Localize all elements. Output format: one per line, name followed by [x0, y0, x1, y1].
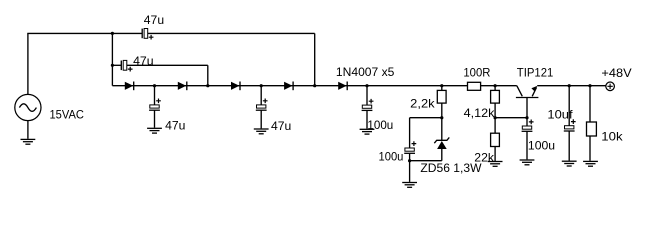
capacitor C6 100u (zener side) [404, 118, 416, 161]
node dot zener bottom [408, 159, 411, 162]
svg-text:47u: 47u [133, 54, 154, 68]
capacitor C8 10uf [564, 86, 576, 161]
svg-text:100u: 100u [379, 149, 404, 163]
node dot after D3 [260, 84, 263, 87]
shunt branch 1: wire down [154, 86, 156, 105]
diode D5 [338, 82, 347, 91]
wire rail after 100R [481, 85, 517, 87]
ground 22k [488, 162, 503, 167]
capacitor C3 47u (shunt 1) [149, 98, 161, 110]
transistor Q1 TIP121 [516, 86, 539, 118]
svg-text:2,2k: 2,2k [410, 97, 435, 111]
diode D2 [178, 82, 187, 91]
svg-text:47u: 47u [271, 119, 291, 133]
zener diode ZD1 ZD56 [434, 118, 449, 161]
wire source bottom lead [27, 121, 29, 139]
node dot middle-rail [206, 84, 209, 87]
wire middle right [127, 64, 208, 66]
wire middle down [207, 65, 209, 85]
output terminal +48V [606, 82, 615, 91]
wire top rail left [27, 32, 142, 34]
ground zener branch [402, 183, 417, 188]
wire top down [314, 33, 316, 85]
svg-text:100u: 100u [528, 139, 555, 153]
resistor R3 4.12k [491, 86, 500, 118]
wire top rail right [148, 32, 315, 34]
ground C7 [520, 160, 535, 165]
capacitor C2 47u (middle series) [121, 60, 132, 71]
diode D3 [231, 82, 240, 91]
diode D4 [284, 82, 293, 91]
svg-text:10k: 10k [601, 130, 623, 144]
shunt branch 2: wire down [260, 86, 262, 105]
capacitor C4 47u (shunt 2) [256, 98, 268, 110]
node dot divider [494, 116, 497, 119]
svg-text:ZD56 1,3W: ZD56 1,3W [420, 161, 482, 175]
wire middle stub [112, 64, 121, 66]
svg-text:100R: 100R [463, 65, 490, 79]
wire C5 to ground [366, 110, 368, 128]
svg-text:1N4007 x5: 1N4007 x5 [336, 65, 395, 79]
svg-text:47u: 47u [144, 13, 164, 27]
wire divider to base [495, 117, 527, 119]
resistor R5 10k [587, 86, 597, 161]
wire vertical AC column [111, 33, 113, 85]
ground shunt1 [147, 128, 162, 133]
wire shunt2 to ground [260, 110, 262, 128]
node dot base [525, 116, 528, 119]
capacitor C7 100u (base) [522, 118, 534, 160]
branch 100u after D5: wire down [366, 86, 368, 105]
node dot 10uf tap [568, 84, 571, 87]
node dot middle [111, 64, 114, 67]
wire zener ground stub [409, 161, 411, 182]
node dot after D5 [365, 84, 368, 87]
capacitor C5 100u [362, 99, 374, 111]
node dot 10k tap [588, 84, 591, 87]
ground C5 [360, 129, 375, 134]
AC source V1 15VAC [15, 94, 41, 120]
svg-text:100u: 100u [367, 118, 393, 132]
diode D1 [125, 82, 134, 91]
svg-text:TIP121: TIP121 [517, 66, 554, 80]
svg-text:15VAC: 15VAC [50, 108, 85, 122]
wire zener bottom left [410, 160, 442, 162]
ground C8 [562, 161, 577, 166]
node dot 4.12k tap [494, 84, 497, 87]
node dot zener top [440, 116, 443, 119]
ground 10k [583, 161, 598, 166]
svg-text:+48V: +48V [601, 66, 631, 80]
resistor R2 2.2k [437, 86, 446, 118]
wire zener node left [410, 117, 442, 119]
wire shunt1 to ground [154, 110, 156, 128]
svg-text:4,12k: 4,12k [464, 106, 496, 120]
ground shunt2 [254, 129, 269, 134]
capacitor C1 47u (top series) [142, 29, 153, 40]
node dot 2.2k tap [440, 84, 443, 87]
resistor R1 100R [468, 82, 481, 90]
svg-text:22k: 22k [474, 150, 495, 164]
node dot top [111, 32, 114, 35]
svg-text:47u: 47u [165, 119, 185, 133]
svg-text:10uf: 10uf [547, 108, 573, 122]
ground under source [21, 139, 36, 144]
node dot after D1 [153, 84, 156, 87]
wire main rail [112, 85, 467, 87]
resistor R4 22k [491, 118, 500, 162]
wire source top lead [27, 33, 29, 94]
node dot top-rail [313, 84, 316, 87]
wire emitter rail [537, 85, 606, 87]
